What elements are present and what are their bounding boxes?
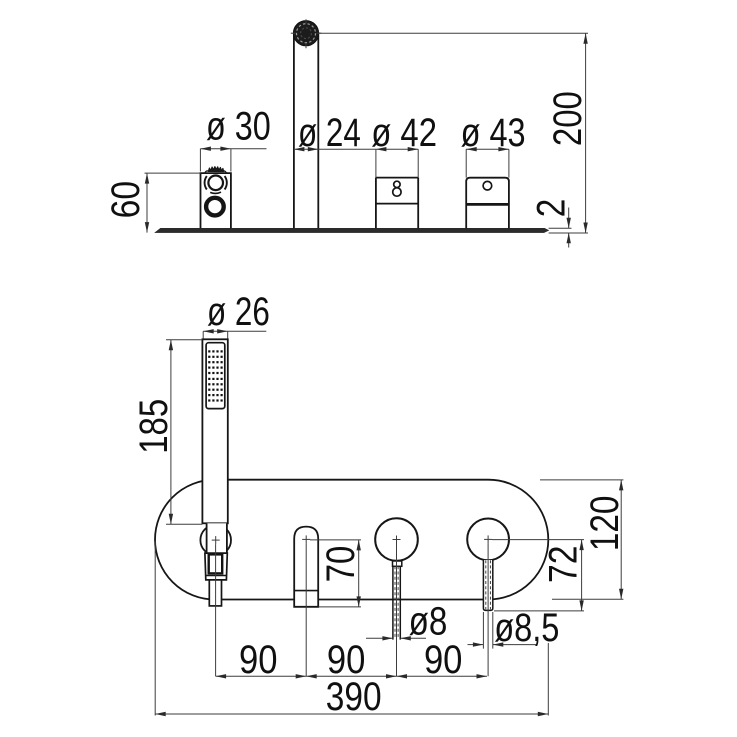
- dimension 70: [310, 540, 363, 607]
- svg-text:185: 185: [132, 399, 176, 454]
- dimension ø26: [203, 290, 270, 339]
- shower centre mark: [212, 536, 220, 544]
- shower holder ball: [200, 525, 231, 556]
- volume handle centre extension line: [396, 544, 398, 677]
- svg-text:ø 24: ø 24: [298, 111, 361, 155]
- mixer handle centre mark: [484, 535, 492, 543]
- spout centre extension line: [305, 543, 307, 676]
- svg-text:ø 42: ø 42: [371, 111, 437, 155]
- mixer stem edge ticks: [483, 612, 492, 649]
- dimension 390: [155, 541, 548, 719]
- handle set screw hole: [483, 181, 492, 190]
- tub spout (front view): [294, 527, 318, 607]
- mixer handle (front view, ø43): [467, 519, 509, 561]
- mounting plate (front view, stadium shape): [155, 480, 548, 600]
- hose connector: [209, 580, 221, 606]
- spout column (side view, ø24): [294, 32, 318, 228]
- shower centre extension line: [215, 544, 217, 676]
- shower neck through ball: [207, 523, 227, 553]
- hand shower body (front view, ø26): [202, 339, 227, 523]
- volume handle stem (ø8): [393, 566, 400, 639]
- svg-text:ø 43: ø 43: [461, 111, 526, 155]
- svg-text:60: 60: [104, 181, 148, 219]
- spout centre mark: [302, 535, 310, 543]
- diverter screw holes: [393, 181, 401, 196]
- deck plate side view: [155, 228, 549, 232]
- hose coupling ring (side view): [206, 198, 224, 216]
- dimension 60: [104, 173, 201, 233]
- hand shower spray face: [206, 343, 225, 409]
- svg-text:70: 70: [319, 546, 363, 583]
- volume handle collar: [393, 561, 402, 566]
- volume handle (front view, ø42): [375, 518, 418, 561]
- shower holder ring: [208, 176, 223, 191]
- dimension ø43: [461, 111, 526, 177]
- svg-text:90: 90: [239, 638, 278, 682]
- dimension ø30: [200, 104, 270, 171]
- dimension ø8,5: [468, 606, 560, 650]
- diverter body (side view, ø42): [376, 178, 418, 229]
- shower holder side clamp arcs: [205, 176, 207, 189]
- mixer handle centre extension line: [487, 543, 489, 676]
- dimension 72: [492, 540, 586, 611]
- dimension ø8: [366, 599, 447, 643]
- spray nozzle dots: [208, 350, 223, 401]
- holder bracket: [205, 553, 227, 580]
- shower holder body (side view, ø30): [201, 173, 231, 228]
- svg-text:ø8: ø8: [409, 599, 448, 643]
- svg-text:ø 30: ø 30: [206, 104, 271, 148]
- dimension 185: [132, 340, 203, 525]
- handle body (side view, ø43): [466, 178, 509, 229]
- spout head end (dark disc): [293, 21, 318, 46]
- mixer handle stem (ø8,5): [483, 560, 492, 610]
- dimension 2 (plate thickness): [530, 199, 574, 248]
- dimension 200: [318, 33, 590, 233]
- svg-text:120: 120: [583, 496, 627, 552]
- svg-text:200: 200: [546, 91, 590, 146]
- dimension ø42: [371, 111, 437, 177]
- shower holder knurled nut: [205, 167, 227, 173]
- dimension 120: [540, 480, 627, 599]
- svg-text:ø 26: ø 26: [207, 290, 270, 334]
- spout head centre ticks: [291, 19, 322, 48]
- svg-text:72: 72: [542, 546, 586, 584]
- svg-text:390: 390: [326, 675, 382, 719]
- dimension ø24: [294, 111, 418, 155]
- shower holder lower arc: [210, 192, 221, 193]
- dimension chain 90 / 90 / 90: [216, 638, 487, 682]
- svg-text:ø8,5: ø8,5: [494, 606, 559, 650]
- volume handle centre mark: [393, 536, 401, 544]
- svg-text:2: 2: [530, 199, 574, 218]
- svg-text:90: 90: [424, 638, 463, 682]
